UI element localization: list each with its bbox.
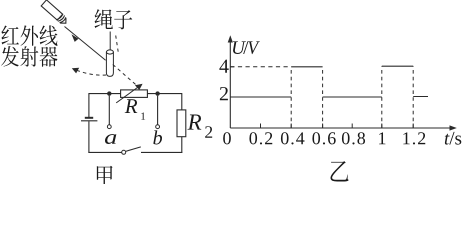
pulse 2 top bbox=[382, 65, 413, 67]
dashed level U=4 bbox=[230, 66, 291, 68]
label text: 绳子 (rope) bbox=[95, 9, 133, 29]
y tick at 4 bbox=[230, 66, 234, 68]
dashed swing arc bbox=[77, 70, 107, 75]
switch lever bbox=[126, 147, 141, 152]
resistor R1 box bbox=[121, 90, 148, 98]
y-axis arrowhead bbox=[228, 35, 233, 42]
label R2 bbox=[187, 115, 212, 138]
switch pivot circle bbox=[122, 150, 126, 154]
rope line bbox=[109, 32, 111, 51]
x axis numeric labels bbox=[223, 132, 425, 144]
dashed swung rope position bbox=[116, 36, 119, 53]
pendulum cylinder bbox=[106, 50, 113, 77]
y label 4 bbox=[219, 60, 228, 73]
waveform U=2 segment 2 bbox=[323, 96, 382, 98]
terminal a stub wire bbox=[108, 96, 110, 125]
pulse 2 left dashed side bbox=[381, 66, 383, 128]
label text: 红外线 (infrared) bbox=[1, 25, 57, 45]
wire: right side upper bbox=[181, 93, 183, 110]
axis label U/V bbox=[233, 41, 260, 54]
battery long plate bbox=[81, 120, 97, 122]
wire: bottom right segment bbox=[141, 151, 182, 153]
pulse 2 right dashed side bbox=[412, 66, 414, 128]
battery short plate bbox=[85, 117, 93, 119]
wire: right side lower bbox=[181, 137, 183, 153]
wire: circuit top side bbox=[89, 93, 182, 95]
wire: left side upper bbox=[88, 93, 90, 117]
waveform U=2 segment 1 bbox=[230, 96, 291, 98]
junction node left bbox=[107, 91, 111, 95]
infrared beam line bbox=[65, 27, 106, 61]
label R1 bbox=[125, 99, 145, 120]
figure label 乙 bbox=[330, 161, 348, 181]
label a bbox=[105, 134, 116, 144]
terminal b circle bbox=[156, 125, 160, 129]
wire: bottom left segment bbox=[88, 151, 121, 153]
R1 variable arrow bbox=[116, 86, 139, 103]
pulse 1 top bbox=[291, 66, 322, 68]
graph y-axis bbox=[229, 40, 231, 129]
x-axis arrowhead bbox=[450, 125, 457, 130]
resistor R2 box bbox=[177, 110, 186, 137]
pulse 1 left dashed side bbox=[290, 67, 292, 128]
beam arrowhead bbox=[72, 34, 79, 42]
y tick at 2 bbox=[230, 96, 234, 98]
x ticks bbox=[260, 124, 262, 129]
terminal b stub wire bbox=[157, 96, 159, 125]
waveform U=2 segment 3 bbox=[413, 96, 428, 98]
swing arc arrowhead bbox=[72, 68, 79, 74]
dashed beam continuation toward R1 bbox=[113, 65, 136, 86]
graph x-axis bbox=[230, 127, 452, 129]
infrared emitter device (tilted pen) bbox=[41, 0, 69, 26]
pulse 1 right dashed side bbox=[322, 67, 324, 128]
label b bbox=[153, 130, 162, 144]
wire: left side lower bbox=[88, 121, 90, 153]
y label 2 bbox=[220, 87, 228, 100]
terminal a circle bbox=[107, 125, 111, 129]
axis label t/s bbox=[445, 132, 461, 145]
figure label 甲 bbox=[97, 166, 113, 187]
junction node right bbox=[155, 91, 159, 95]
label text: 发射器 (emitter) bbox=[1, 46, 57, 67]
